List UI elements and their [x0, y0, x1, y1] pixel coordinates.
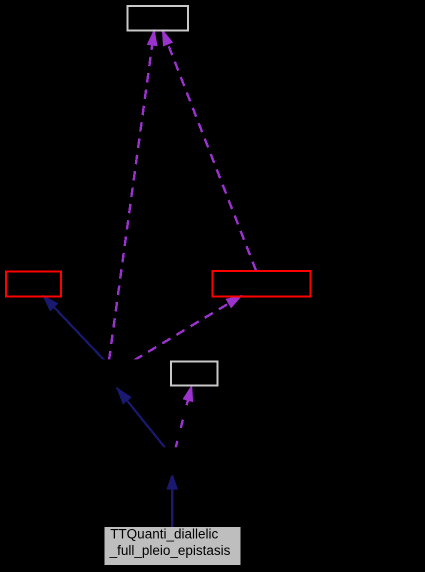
edge: solid blue inheritance wire, hidden node N1 to hidden node N2: [116, 387, 166, 449]
edge: dashed purple usage wire, right red node to top node (long diagonal): [162, 29, 256, 271]
edge: dashed purple usage wire, hidden node N2 to top node (long, near vertical): [109, 29, 158, 361]
edge: solid blue inheritance wire, main class to hidden base node N1: [166, 473, 178, 528]
edge: dashed purple usage wire, hidden node N1 to middle gray node: [176, 384, 194, 448]
edge: solid blue inheritance wire, hidden node N2 to left red node: [42, 295, 104, 361]
svg-text:_full_pleio_epistasis: _full_pleio_epistasis: [109, 543, 231, 558]
node: hidden class box N1 (black border, invisible on black background): [141, 448, 203, 474]
node: main class TTQuanti_diallelic_full_pleio_epistasis (gray filled box with label): [105, 527, 241, 565]
node: right class box (red border, truncated relations): [212, 271, 310, 297]
node: top class box (gray border, undocumented class): [127, 6, 187, 30]
node: hidden class box N2 (black border, invisible on black background): [86, 360, 148, 386]
edge: dashed purple usage wire, hidden node N2 to right red node: [134, 295, 243, 361]
svg-text:TTQuanti_diallelic: TTQuanti_diallelic: [110, 527, 218, 542]
node: left class box (red border, truncated relations): [6, 272, 61, 297]
node: middle class box (gray border, undocumented class): [171, 361, 218, 385]
